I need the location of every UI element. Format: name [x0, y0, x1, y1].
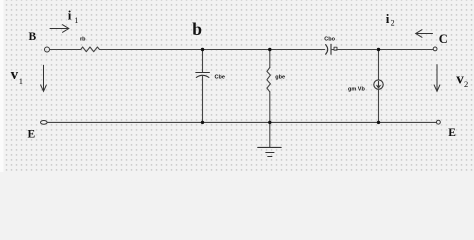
svg-text:Cbo: Cbo [324, 37, 335, 43]
pin square marker [334, 47, 337, 50]
svg-text:gm Vb: gm Vb [348, 87, 365, 93]
terminal E right [437, 120, 441, 124]
wire node b down to Cbe [202, 50, 204, 73]
arrow v2 [434, 65, 440, 92]
wire top to current source [378, 50, 380, 80]
wire Cbc to pin square [331, 49, 334, 51]
wire gbe to bottom [269, 92, 271, 123]
junction node b top [201, 48, 204, 51]
svg-text:v: v [11, 67, 19, 83]
capacitor Cbe straight plate [196, 72, 210, 74]
resistor rb [79, 47, 101, 52]
resistor gbe [267, 68, 271, 92]
junction gbe bottom [268, 121, 271, 124]
terminal E left [41, 121, 48, 125]
svg-text:Cbe: Cbe [215, 75, 225, 81]
ground stem [269, 122, 271, 147]
current source arrow [377, 81, 380, 87]
svg-text:1: 1 [74, 16, 78, 25]
capacitor Cbc curved plate [326, 45, 328, 55]
ground bar 1 [258, 146, 282, 148]
svg-text:E: E [28, 129, 36, 141]
junction Cbe bottom [201, 121, 204, 124]
svg-text:2: 2 [464, 79, 468, 89]
wire pin square to C [336, 49, 433, 51]
wire current source to bottom [378, 89, 380, 122]
wire Cbe to bottom [202, 76, 204, 123]
ground bar 3 [268, 156, 272, 158]
svg-text:gbe: gbe [275, 74, 285, 80]
svg-text:2: 2 [391, 18, 395, 27]
bottom wire E to E [47, 121, 436, 123]
wire B to rb [50, 49, 80, 51]
svg-text:C: C [439, 32, 448, 46]
junction source top [377, 48, 380, 51]
svg-text:i: i [68, 7, 72, 22]
svg-text:b: b [192, 19, 202, 39]
svg-text:i: i [386, 11, 390, 26]
junction gbe top [268, 48, 271, 51]
svg-text:v: v [456, 71, 464, 87]
svg-text:1: 1 [19, 76, 23, 86]
svg-text:rb: rb [80, 37, 86, 43]
svg-text:E: E [448, 127, 456, 139]
arrow i2 [416, 30, 433, 38]
arrow i1 [50, 25, 69, 33]
wire top to gbe [269, 50, 271, 68]
capacitor Cbc straight plate [330, 44, 332, 54]
wire rb to Cbc [101, 49, 325, 51]
arrow v1 [41, 65, 47, 91]
capacitor Cbe curved plate [196, 75, 209, 77]
junction source bottom [377, 121, 380, 124]
terminal B [45, 47, 50, 52]
current source gm Vb circle [374, 80, 383, 89]
svg-text:B: B [29, 31, 37, 43]
ground bar 2 [266, 152, 274, 154]
terminal C [433, 47, 437, 51]
